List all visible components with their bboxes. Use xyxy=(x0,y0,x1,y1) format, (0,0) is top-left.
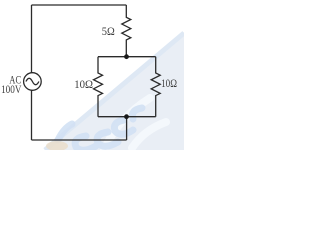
node junction bottom xyxy=(124,114,129,119)
wire top rail xyxy=(32,4,127,6)
AC source V1 xyxy=(24,73,42,91)
wire parallel bottom rail xyxy=(98,116,156,118)
watermark letter strokes xyxy=(58,108,142,150)
wire bottom riser xyxy=(126,117,128,140)
wire left rail lower xyxy=(31,90,33,140)
resistor R3 10ohm right xyxy=(151,57,160,117)
svg-text:10Ω: 10Ω xyxy=(74,77,93,91)
svg-text:10Ω: 10Ω xyxy=(161,76,177,90)
resistor R2 10ohm left xyxy=(94,57,103,117)
wire parallel top rail xyxy=(98,56,156,58)
watermark swoosh band xyxy=(44,32,184,150)
node junction top xyxy=(124,54,129,59)
watermark tan blob xyxy=(46,141,68,151)
svg-text:100V: 100V xyxy=(1,82,22,96)
svg-text:5Ω: 5Ω xyxy=(102,24,115,38)
watermark swoosh edge xyxy=(45,33,184,150)
watermark inner light arcs xyxy=(104,98,166,150)
resistor R1 5ohm xyxy=(122,5,131,57)
wire bottom rail xyxy=(32,139,127,141)
wire left rail upper xyxy=(31,5,33,73)
